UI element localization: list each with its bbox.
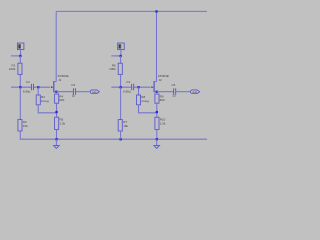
svg-text:6.80µ: 6.80µ bbox=[123, 90, 131, 94]
wire input node 1 down to R2 bbox=[19, 87, 21, 119]
svg-text:1µ: 1µ bbox=[72, 94, 76, 98]
svg-text:6.80µ: 6.80µ bbox=[23, 90, 31, 94]
wire R4 to tap bbox=[56, 103, 58, 117]
input wire bbox=[11, 86, 50, 88]
svg-text:1.5k: 1.5k bbox=[160, 121, 166, 125]
resistor R1 bbox=[9, 63, 22, 74]
ground rail bbox=[20, 138, 207, 140]
svg-text:100k: 100k bbox=[9, 67, 16, 71]
wire R3 to source divider tap bbox=[38, 105, 56, 113]
wire stub left of node A2 bbox=[111, 55, 120, 57]
node R7 bottom junction bbox=[120, 138, 122, 140]
output wire from source 2 bbox=[157, 91, 174, 93]
wire input node 2 down to R7 bbox=[120, 87, 122, 119]
resistor R3 bbox=[36, 95, 49, 105]
svg-text:15k: 15k bbox=[123, 124, 128, 128]
svg-text:1meg: 1meg bbox=[141, 99, 149, 103]
port out1 bbox=[90, 90, 99, 94]
svg-text:out1: out1 bbox=[92, 90, 97, 94]
node B junction (R1/R2/input) bbox=[19, 86, 21, 88]
supply connector X1 bbox=[17, 43, 24, 56]
resistor R2 bbox=[18, 120, 28, 131]
node D junction (source node) bbox=[55, 91, 57, 93]
wire stub left of node A bbox=[11, 55, 20, 57]
wire R1 to input node bbox=[19, 74, 21, 87]
wire R9 to tap 2 bbox=[156, 103, 158, 117]
node C junction (gate node) bbox=[37, 86, 39, 88]
node E2 junction (divider tap 2) bbox=[156, 111, 158, 113]
node D2 junction (source node 2) bbox=[156, 91, 158, 93]
node F junction on ground rail bbox=[55, 138, 57, 140]
wire drain 2 to +V rail bbox=[156, 11, 158, 81]
wire node C to R3 bbox=[37, 87, 39, 95]
wire R7 to ground rail bbox=[120, 131, 122, 139]
wire C5 to out2 port bbox=[176, 91, 191, 93]
node B2 junction bbox=[120, 86, 122, 88]
ground symbol stage 1 bbox=[54, 139, 60, 148]
input wire stage 2 bbox=[111, 86, 150, 88]
wire C3 to out1 port bbox=[75, 91, 90, 93]
svg-text:C2: C2 bbox=[26, 80, 30, 84]
wire R6 to input node 2 bbox=[120, 74, 122, 87]
output wire from source bbox=[56, 91, 73, 93]
svg-text:820: 820 bbox=[59, 98, 64, 102]
wire R10 to ground rail bbox=[156, 130, 158, 140]
resistor R10 bbox=[155, 117, 166, 129]
svg-text:1meg: 1meg bbox=[41, 99, 49, 103]
resistor R9 bbox=[155, 94, 165, 103]
node C2 junction (gate node 2) bbox=[137, 86, 139, 88]
svg-text:J2: J2 bbox=[159, 78, 163, 82]
resistor R8 bbox=[137, 95, 150, 105]
capacitor C4 bbox=[123, 80, 134, 94]
node on +V rail bbox=[155, 10, 157, 12]
node A junction bbox=[19, 55, 21, 57]
svg-text:820: 820 bbox=[160, 98, 165, 102]
power rail +V bbox=[56, 10, 207, 12]
node F2 junction on ground rail bbox=[156, 138, 158, 140]
svg-text:C5: C5 bbox=[172, 83, 176, 87]
resistor R4 bbox=[55, 94, 65, 103]
port out2 bbox=[191, 90, 200, 94]
transistor J1 KP303E bbox=[51, 74, 69, 92]
svg-text:100k: 100k bbox=[109, 67, 116, 71]
capacitor C3 bbox=[71, 83, 75, 98]
svg-text:C3: C3 bbox=[71, 83, 75, 87]
resistor R5 bbox=[55, 117, 66, 129]
svg-text:1.5k: 1.5k bbox=[60, 121, 66, 125]
wire drain to +V rail bbox=[55, 11, 57, 81]
ground symbol stage 2 bbox=[154, 139, 160, 148]
svg-text:C4: C4 bbox=[126, 80, 130, 84]
capacitor C2 bbox=[23, 80, 34, 94]
wire node C2 to R8 bbox=[138, 87, 140, 95]
node E junction (divider tap) bbox=[55, 111, 57, 113]
wire R2 to ground rail bbox=[19, 131, 21, 139]
svg-text:out2: out2 bbox=[192, 90, 197, 94]
wire R8 to source divider tap 2 bbox=[139, 105, 157, 113]
node A2 junction bbox=[120, 55, 122, 57]
wire supply to R1 bbox=[19, 56, 21, 63]
resistor R6 bbox=[109, 63, 122, 74]
wire supply to R6 bbox=[120, 56, 122, 63]
wire R5 to ground rail bbox=[56, 130, 58, 140]
resistor R7 bbox=[118, 120, 128, 131]
svg-text:J1: J1 bbox=[58, 78, 62, 82]
svg-text:1µ: 1µ bbox=[172, 94, 176, 98]
svg-text:15k: 15k bbox=[23, 124, 28, 128]
supply connector X2 bbox=[118, 43, 125, 56]
capacitor C5 bbox=[172, 83, 176, 98]
transistor J2 KP303E bbox=[151, 74, 169, 92]
